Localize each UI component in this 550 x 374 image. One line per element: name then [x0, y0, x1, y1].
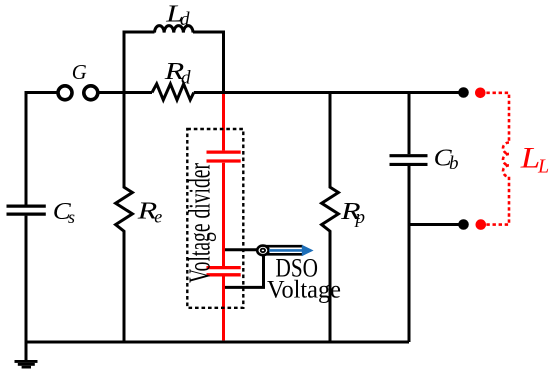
svg-text:p: p: [354, 207, 366, 228]
svg-text:b: b: [449, 153, 459, 174]
svg-text:Voltage: Voltage: [267, 277, 341, 304]
svg-text:s: s: [68, 207, 75, 227]
svg-text:G: G: [72, 60, 87, 84]
svg-text:Voltage divider: Voltage divider: [182, 163, 217, 283]
svg-text:L: L: [537, 155, 549, 177]
svg-text:d: d: [180, 9, 190, 30]
svg-text:e: e: [154, 207, 162, 227]
svg-text:d: d: [181, 68, 191, 89]
